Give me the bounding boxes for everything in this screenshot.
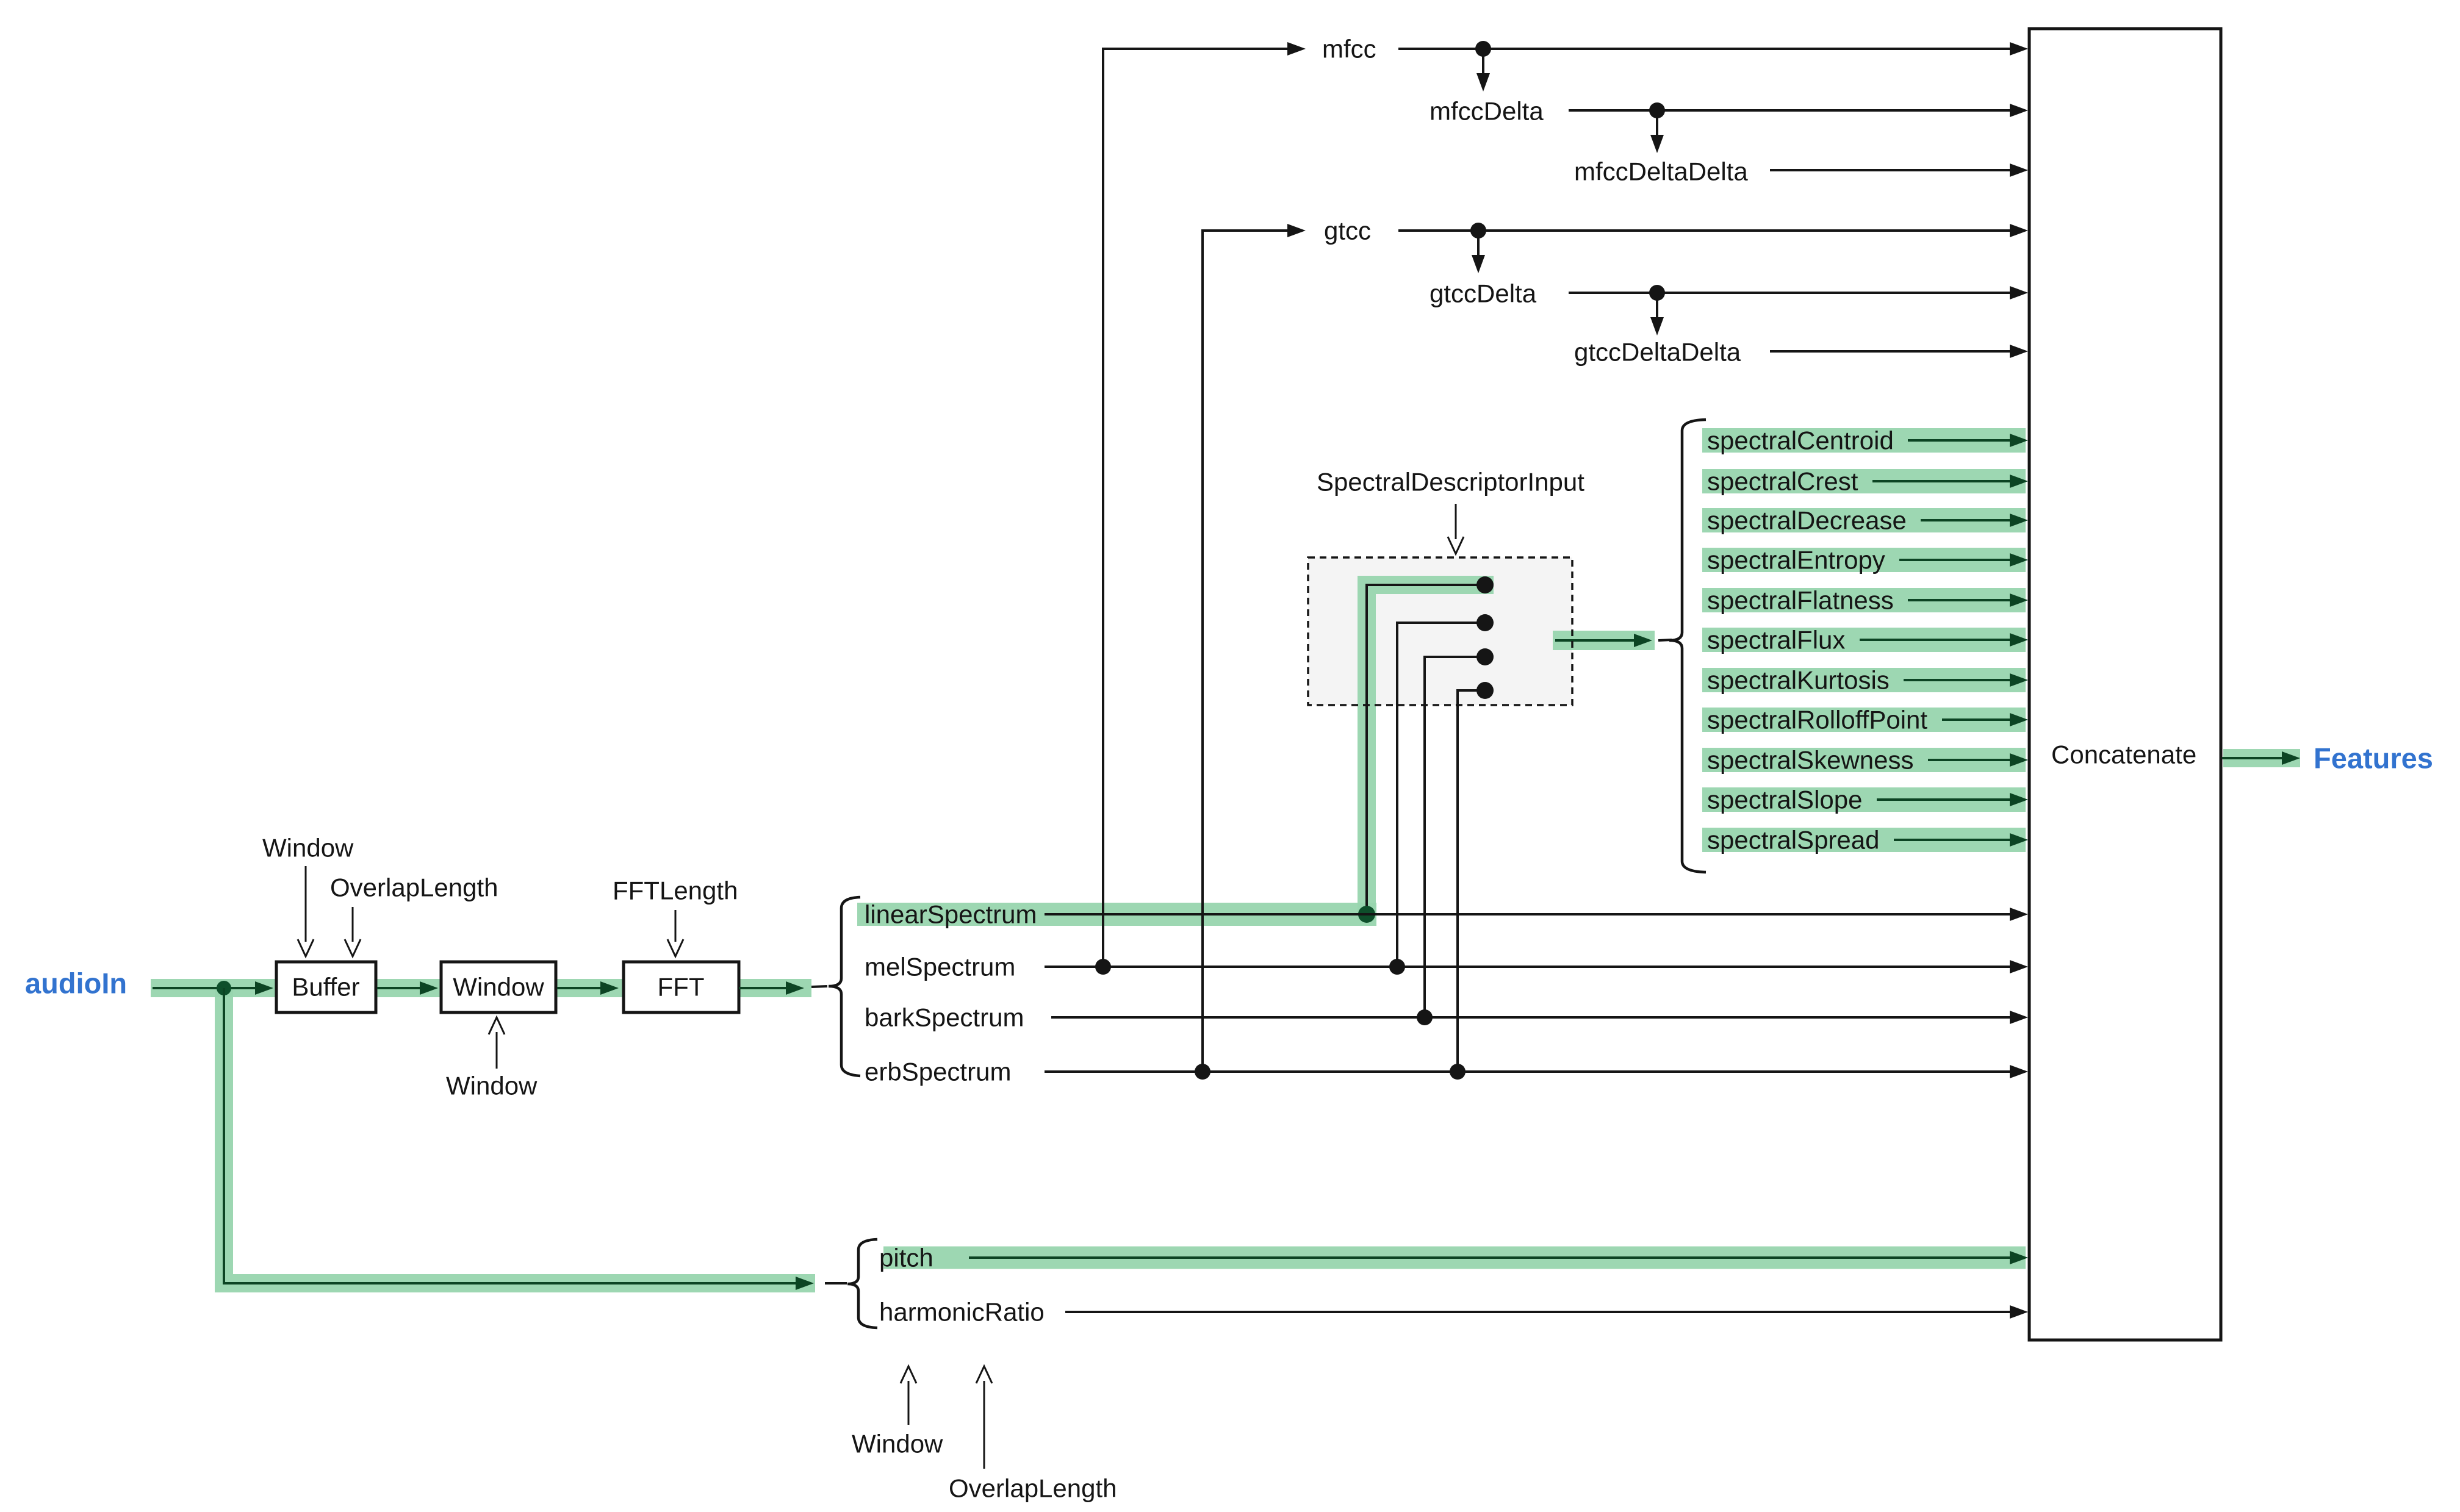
highlight: pitch row: [883, 1247, 2026, 1269]
arrow Window param into pitch group: [908, 1381, 910, 1425]
highlight: spectralSkewness row: [1702, 748, 2026, 772]
spectralDecrease output line: [1921, 519, 2012, 521]
arrow Window param into Window block: [496, 1032, 498, 1069]
svg-text:harmonicRatio: harmonicRatio: [879, 1298, 1045, 1327]
spectralCrest output line: [1872, 480, 2012, 482]
highlight: spectralSlope row: [1702, 787, 2026, 812]
arrow SpectralDescriptorInput label to box: [1455, 504, 1457, 539]
svg-text:OverlapLength: OverlapLength: [949, 1474, 1117, 1503]
erbSpectrum tap into box: [1458, 690, 1483, 1072]
mfcc feed line from melSpectrum: [1103, 49, 1297, 967]
svg-text:spectralEntropy: spectralEntropy: [1707, 546, 1885, 575]
arrow gtccDelta to gtccDeltaDelta: [1656, 300, 1658, 320]
svg-text:Buffer: Buffer: [292, 973, 359, 1001]
mfccDeltaDelta output line: [1770, 169, 2012, 171]
svg-text:OverlapLength: OverlapLength: [330, 873, 498, 902]
gtcc feed line from erbSpectrum: [1203, 231, 1297, 1072]
svg-text:Window: Window: [446, 1072, 538, 1100]
svg-text:pitch: pitch: [879, 1244, 933, 1272]
spectralSpread output line: [1894, 839, 2012, 841]
highlight: Window to FFT: [557, 979, 624, 997]
arrow OverlapLength param into pitch group: [984, 1381, 985, 1469]
barkSpectrum tap into box: [1425, 657, 1483, 1017]
highlight: Buffer to Window: [377, 979, 441, 997]
Concatenate block: [2029, 29, 2221, 1340]
svg-text:Window: Window: [262, 834, 354, 862]
arrow gtcc to gtccDelta: [1477, 238, 1480, 257]
svg-text:gtccDeltaDelta: gtccDeltaDelta: [1574, 338, 1741, 367]
svg-text:spectralSlope: spectralSlope: [1707, 786, 1862, 814]
connector to pitch brace: [825, 1282, 847, 1284]
highlight: SpectralDescriptorInput output arrow: [1553, 631, 1655, 650]
node: junction on erbSpectrum for gtcc: [1195, 1064, 1210, 1080]
melSpectrum line to Concatenate: [1045, 966, 2012, 968]
node: junction on erbSpectrum: [1450, 1064, 1466, 1080]
wire audioIn branch down to pitch group: [224, 988, 799, 1283]
svg-text:spectralSpread: spectralSpread: [1707, 826, 1880, 855]
svg-text:mfccDelta: mfccDelta: [1430, 97, 1544, 126]
node: junction on audioIn wire: [217, 981, 231, 995]
svg-text:barkSpectrum: barkSpectrum: [865, 1003, 1024, 1032]
wire audioIn to Buffer: [153, 987, 259, 989]
wire FFT to spectrum brace: [739, 987, 789, 989]
Window block: [441, 962, 556, 1012]
svg-text:spectralFlux: spectralFlux: [1707, 626, 1845, 654]
svg-text:FFTLength: FFTLength: [613, 876, 738, 905]
gtcc output line: [1398, 229, 2012, 232]
Buffer block: [276, 962, 376, 1012]
svg-text:gtccDelta: gtccDelta: [1430, 279, 1537, 308]
node on gtccDelta line: [1649, 285, 1665, 301]
svg-text:melSpectrum: melSpectrum: [865, 953, 1015, 981]
SpectralDescriptorInput output arrow: [1555, 639, 1638, 642]
node: SDI input 2: [1476, 614, 1494, 631]
node: SDI input 4: [1476, 682, 1494, 699]
svg-text:spectralRolloffPoint: spectralRolloffPoint: [1707, 706, 1927, 734]
gtccDelta output line: [1569, 292, 2012, 294]
svg-text:Features: Features: [2314, 742, 2433, 775]
highlight: spectralCentroid row: [1702, 428, 2026, 453]
highlight: spectralCrest row: [1702, 469, 2026, 493]
svg-text:spectralDecrease: spectralDecrease: [1707, 506, 1907, 535]
erbSpectrum line to Concatenate: [1045, 1070, 2012, 1073]
arrow Window param into Buffer: [305, 866, 307, 942]
spectralFlux output line: [1860, 639, 2012, 641]
Features output arrow: [2222, 757, 2287, 759]
svg-text:audioIn: audioIn: [25, 967, 127, 1000]
highlight: spectralEntropy row: [1702, 548, 2026, 572]
spectralCentroid output line: [1908, 439, 2012, 442]
spectralRolloffPoint output line: [1942, 718, 2012, 721]
node on mfcc line: [1475, 41, 1491, 57]
highlight: spectralRolloffPoint row: [1702, 708, 2026, 732]
highlight: linearSpectrum up into SpectralDescriptorInput: [1367, 585, 1494, 918]
spectralSlope output line: [1877, 798, 2012, 801]
wire Window to FFT: [557, 987, 604, 989]
spectralKurtosis output line: [1904, 679, 2012, 681]
wire Buffer to Window: [377, 987, 423, 989]
node: SDI input 1: [1476, 576, 1494, 593]
pitch line to Concatenate: [969, 1256, 2012, 1259]
svg-text:linearSpectrum: linearSpectrum: [865, 900, 1037, 929]
highlight: audioIn down to pitch group: [224, 988, 815, 1283]
svg-text:FFT: FFT: [658, 973, 705, 1001]
svg-text:mfcc: mfcc: [1322, 35, 1376, 63]
linearSpectrum line to Concatenate: [1045, 913, 2012, 915]
melSpectrum tap into box: [1397, 623, 1483, 967]
arrow mfcc to mfccDelta: [1482, 56, 1484, 76]
svg-text:spectralSkewness: spectralSkewness: [1707, 746, 1913, 775]
node: junction on melSpectrum for mfcc: [1095, 959, 1111, 975]
svg-text:Concatenate: Concatenate: [2051, 740, 2196, 769]
spectralEntropy output line: [1899, 559, 2012, 561]
brace for spectral descriptor group: [1669, 420, 1706, 872]
svg-text:erbSpectrum: erbSpectrum: [865, 1058, 1011, 1086]
svg-text:SpectralDescriptorInput: SpectralDescriptorInput: [1317, 468, 1584, 496]
highlight: spectralFlux row: [1702, 628, 2026, 652]
highlight: linearSpectrum label and line: [857, 903, 1376, 926]
barkSpectrum line to Concatenate: [1051, 1016, 2012, 1019]
svg-text:spectralCrest: spectralCrest: [1707, 467, 1858, 496]
harmonicRatio line to Concatenate: [1065, 1311, 2012, 1313]
spectralFlatness output line: [1908, 599, 2012, 601]
SpectralDescriptorInput box fill: [1308, 557, 1572, 705]
node on mfccDelta line: [1649, 102, 1665, 118]
SpectralDescriptorInput dashed box border: [1308, 557, 1572, 705]
mfcc output line to Concatenate: [1398, 48, 2012, 50]
node on gtcc line: [1470, 223, 1486, 238]
arrow mfccDelta to mfccDeltaDelta: [1656, 118, 1658, 137]
svg-text:spectralCentroid: spectralCentroid: [1707, 426, 1894, 455]
FFT block: [624, 962, 739, 1012]
node: green junction on linearSpectrum: [1358, 906, 1375, 923]
svg-text:Window: Window: [852, 1430, 943, 1458]
mfccDelta output line: [1569, 109, 2012, 112]
node: junction on barkSpectrum: [1417, 1009, 1433, 1025]
highlight: spectralSpread row: [1702, 828, 2026, 852]
svg-text:spectralKurtosis: spectralKurtosis: [1707, 666, 1890, 695]
arrow FFTLength into FFT: [675, 910, 677, 942]
highlight: spectralKurtosis row: [1702, 668, 2026, 692]
arrow OverlapLength into Buffer: [352, 907, 354, 942]
highlight: spectralDecrease row: [1702, 508, 2026, 532]
node: SDI input 3: [1476, 648, 1494, 665]
svg-text:mfccDeltaDelta: mfccDeltaDelta: [1574, 157, 1748, 186]
spectralSkewness output line: [1928, 759, 2012, 761]
gtccDeltaDelta output line: [1770, 350, 2012, 353]
linearSpectrum tap into box (green path): [1367, 585, 1483, 914]
highlight: Features arrow: [2223, 749, 2300, 767]
highlight: spectralFlatness row: [1702, 588, 2026, 612]
highlight: audioIn to Buffer: [151, 979, 276, 997]
brace for pitch group: [847, 1239, 877, 1328]
highlight: FFT to spectrum brace: [739, 979, 811, 997]
svg-text:spectralFlatness: spectralFlatness: [1707, 586, 1894, 615]
svg-text:gtcc: gtcc: [1324, 217, 1371, 245]
node: junction on melSpectrum: [1389, 959, 1405, 975]
connector into spectral brace: [1658, 640, 1672, 640]
brace for spectrum group: [829, 897, 860, 1076]
connector FFT arrow to spectrum brace: [811, 986, 827, 987]
svg-text:Window: Window: [453, 973, 544, 1001]
